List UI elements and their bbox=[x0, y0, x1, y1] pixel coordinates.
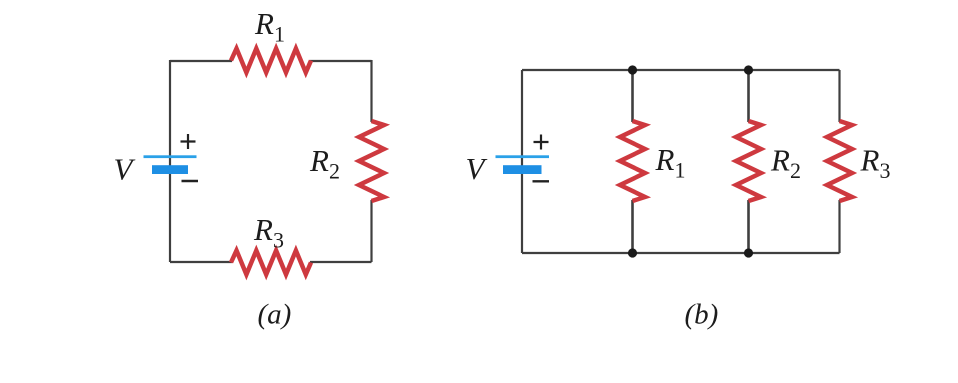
wire top (b) bbox=[522, 69, 840, 71]
wire branch R2 upper bbox=[747, 70, 750, 122]
resistor R3 (bottom, series) bbox=[231, 251, 311, 275]
junction dot top R2 bbox=[744, 65, 753, 74]
battery V (b) top plate bbox=[496, 155, 550, 158]
svg-text:V: V bbox=[466, 151, 488, 186]
battery (a) minus sign bbox=[182, 180, 199, 182]
junction dot top R1 bbox=[628, 65, 637, 74]
battery (b) minus sign bbox=[533, 180, 550, 182]
wire bottom right bbox=[310, 261, 372, 263]
wire bottom (b) bbox=[522, 252, 840, 254]
svg-text:(b): (b) bbox=[685, 299, 719, 331]
wire top right bbox=[310, 60, 372, 62]
svg-text:V: V bbox=[114, 152, 136, 187]
battery (b) plus sign bbox=[534, 135, 549, 150]
wire bottom left bbox=[170, 261, 232, 263]
wire right upper (b) bbox=[838, 70, 840, 122]
junction dot bottom R2 bbox=[744, 248, 753, 257]
resistor R1 (b) bbox=[620, 121, 645, 201]
wire right upper bbox=[370, 60, 372, 122]
battery V (a) top plate bbox=[144, 155, 197, 158]
wire right lower bbox=[370, 200, 372, 262]
wire branch R1 upper bbox=[631, 70, 634, 122]
wire right lower (b) bbox=[838, 200, 840, 253]
wire branch R2 lower bbox=[747, 200, 750, 253]
resistor R2 (right, series) bbox=[359, 121, 384, 201]
resistor R1 (top, series) bbox=[231, 49, 311, 73]
resistor R2 (b) bbox=[736, 121, 761, 201]
resistor R3 (b) bbox=[827, 121, 852, 201]
battery V (a) bottom plate bbox=[152, 165, 188, 174]
wire top left bbox=[170, 60, 232, 62]
junction dot bottom R1 bbox=[628, 248, 637, 257]
battery V (b) bottom plate bbox=[503, 165, 542, 174]
wire left bbox=[169, 60, 171, 262]
wire: (a) top-left segment bbox=[170, 60, 372, 262]
wire branch R1 lower bbox=[631, 200, 634, 253]
battery (a) plus sign bbox=[181, 134, 196, 149]
wire left (b) bbox=[521, 70, 523, 253]
svg-text:(a): (a) bbox=[258, 299, 292, 331]
